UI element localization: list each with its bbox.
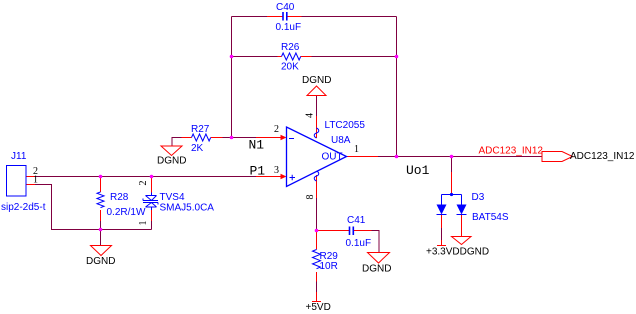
svg-text:1: 1: [354, 144, 359, 155]
svg-text:R28: R28: [110, 192, 129, 203]
svg-text:C41: C41: [347, 215, 366, 226]
svg-text:DGND: DGND: [157, 156, 186, 167]
svg-text:D3: D3: [472, 192, 485, 203]
svg-text:3: 3: [274, 165, 279, 176]
svg-text:DGND: DGND: [362, 264, 391, 275]
svg-text:0.1uF: 0.1uF: [346, 238, 372, 249]
svg-text:BAT54S: BAT54S: [472, 212, 509, 223]
svg-text:R26: R26: [281, 42, 300, 53]
svg-text:0.2R/1W: 0.2R/1W: [107, 207, 146, 218]
svg-text:10R: 10R: [320, 261, 338, 272]
svg-text:P1: P1: [250, 164, 266, 179]
svg-text:4: 4: [305, 113, 316, 118]
svg-text:DGND: DGND: [86, 256, 115, 267]
svg-text:R27: R27: [191, 124, 210, 135]
svg-text:C40: C40: [276, 2, 295, 13]
svg-text:20K: 20K: [281, 62, 299, 73]
svg-text:2: 2: [138, 181, 149, 186]
svg-text:N1: N1: [249, 138, 265, 153]
svg-text:J11: J11: [11, 151, 27, 162]
svg-text:8: 8: [305, 195, 316, 200]
svg-text:Uo1: Uo1: [406, 163, 430, 178]
svg-text:1: 1: [33, 175, 38, 186]
svg-text:sip2-2d5-t: sip2-2d5-t: [1, 202, 46, 213]
svg-text:OUT: OUT: [322, 152, 343, 163]
svg-text:U8A: U8A: [331, 135, 351, 146]
svg-text:SMAJ5.0CA: SMAJ5.0CA: [160, 203, 215, 214]
svg-text:2K: 2K: [191, 143, 204, 154]
svg-text:ADC123_IN12: ADC123_IN12: [570, 151, 635, 162]
svg-text:1: 1: [138, 221, 149, 226]
svg-text:0.1uF: 0.1uF: [276, 22, 302, 33]
svg-text:LTC2055: LTC2055: [325, 120, 366, 131]
svg-text:+5VD: +5VD: [306, 302, 331, 313]
svg-text:2: 2: [274, 124, 279, 135]
svg-text:ADC123_IN12: ADC123_IN12: [479, 146, 544, 157]
svg-text:DGND: DGND: [302, 75, 331, 86]
svg-text:+3.3VDDGND: +3.3VDDGND: [426, 247, 489, 258]
svg-text:TVS4: TVS4: [160, 192, 185, 203]
